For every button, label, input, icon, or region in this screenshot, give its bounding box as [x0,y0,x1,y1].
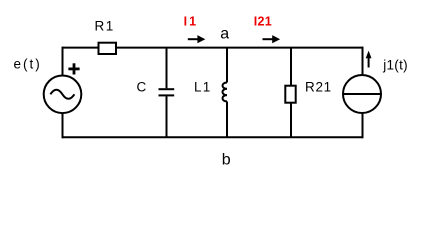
svg-text:R1: R1 [95,19,115,34]
svg-text:I21: I21 [254,15,272,29]
svg-text:a: a [220,25,229,42]
svg-text:L1: L1 [194,79,211,94]
svg-text:e(t): e(t) [14,56,42,71]
svg-text:R21: R21 [305,79,332,94]
svg-text:j1(t): j1(t) [382,57,408,72]
svg-text:I1: I1 [184,15,198,29]
svg-text:C: C [137,79,147,94]
svg-text:b: b [222,151,231,168]
